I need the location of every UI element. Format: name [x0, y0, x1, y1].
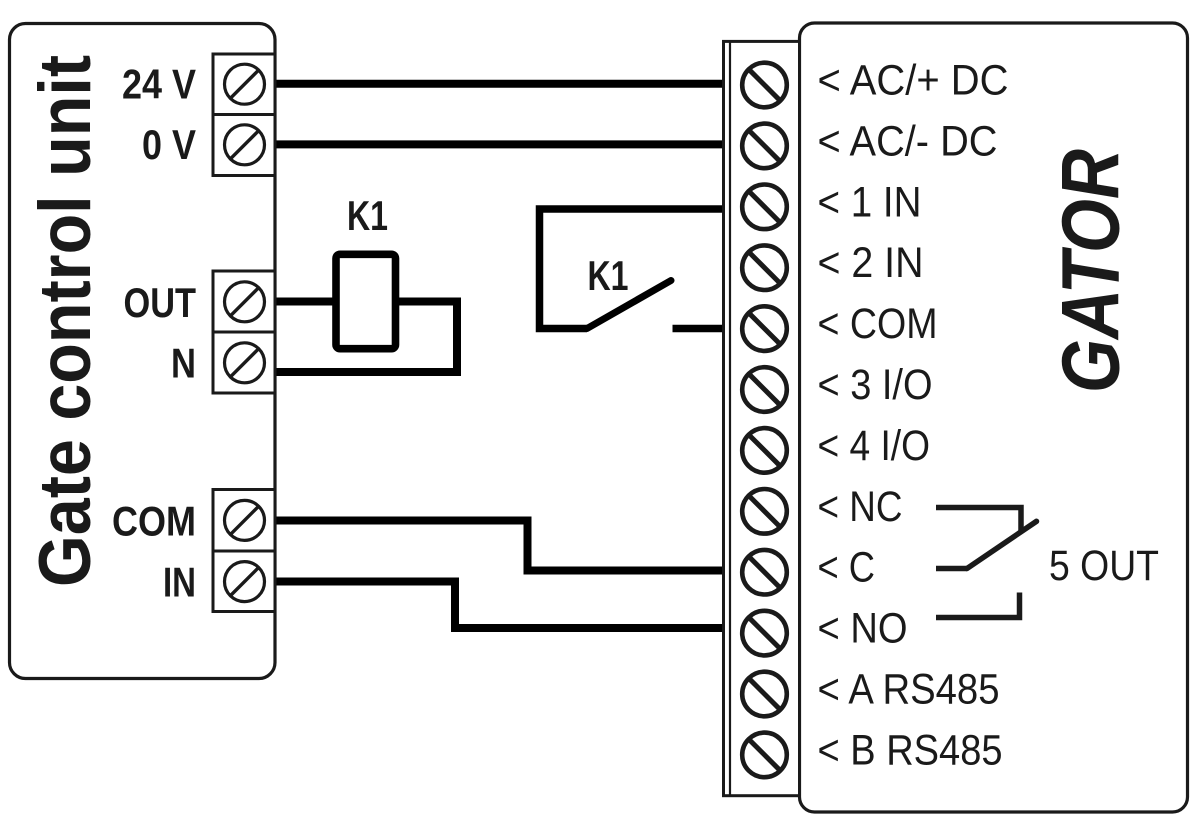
svg-text:< 3 I/O: < 3 I/O	[818, 361, 933, 409]
screw 2 IN	[742, 245, 787, 290]
wire 24V to AC/+DC	[273, 80, 725, 88]
wire IN to NO	[273, 582, 725, 629]
screw 1 IN	[742, 185, 787, 230]
svg-text:0 V: 0 V	[142, 121, 196, 168]
svg-text:< A RS485: < A RS485	[818, 666, 1000, 714]
svg-text:< NC: < NC	[818, 483, 903, 531]
terminal 0V	[213, 115, 275, 176]
strip screws	[742, 63, 787, 778]
screw NC	[742, 489, 787, 534]
wire contact K1 to COM	[673, 325, 725, 333]
svg-text:5 OUT: 5 OUT	[1049, 542, 1159, 590]
screw C	[742, 550, 787, 595]
svg-text:< AC/- DC: < AC/- DC	[818, 117, 998, 165]
wire COM to C	[273, 521, 725, 571]
5 OUT contact blade	[967, 521, 1037, 568]
wire 0V to AC/-DC	[273, 140, 725, 148]
screw 3 I/O	[742, 367, 787, 412]
svg-text:< NO: < NO	[818, 605, 908, 653]
screw A RS485	[742, 672, 787, 717]
relay coil K1	[336, 254, 396, 348]
screw NO	[742, 611, 787, 656]
screw AC/+DC	[742, 63, 787, 108]
wire coil K1 to N	[273, 302, 457, 373]
5 OUT contact NO line	[936, 593, 1020, 618]
terminal 24V	[213, 54, 275, 115]
svg-text:K1: K1	[588, 252, 629, 299]
svg-text:< 2 IN: < 2 IN	[818, 239, 924, 287]
wire 1IN to contact K1	[540, 209, 725, 329]
svg-text:COM: COM	[112, 498, 196, 545]
screw COM	[742, 306, 787, 351]
svg-text:< B RS485: < B RS485	[818, 726, 1003, 774]
svg-text:N: N	[171, 340, 196, 387]
5 OUT contact C line	[936, 566, 967, 572]
svg-text:GATOR: GATOR	[1046, 149, 1137, 393]
screw 4 I/O	[742, 428, 787, 473]
svg-text:< 1 IN: < 1 IN	[818, 178, 922, 226]
svg-text:< AC/+ DC: < AC/+ DC	[818, 57, 1009, 105]
terminal IN	[213, 551, 275, 612]
screw B RS485	[742, 733, 787, 778]
terminal N	[213, 332, 275, 393]
terminal strip	[724, 41, 800, 795]
gate control unit box	[10, 24, 276, 679]
svg-text:OUT: OUT	[124, 279, 197, 326]
svg-text:K1: K1	[347, 192, 388, 239]
svg-text:24 V: 24 V	[122, 61, 196, 108]
svg-text:< C: < C	[818, 544, 876, 592]
wire OUT to coil K1	[273, 298, 334, 306]
contact K1 blade	[587, 281, 671, 329]
svg-text:< 4 I/O: < 4 I/O	[818, 422, 931, 470]
5 OUT contact NC line	[936, 508, 1021, 532]
svg-text:Gate control unit: Gate control unit	[23, 55, 106, 587]
GATOR box	[800, 23, 1188, 812]
svg-text:< COM: < COM	[818, 300, 938, 348]
terminal OUT	[213, 271, 275, 332]
strip inner edge line	[729, 41, 731, 795]
svg-text:IN: IN	[163, 559, 196, 606]
terminal COM	[213, 490, 275, 552]
screw AC/-DC	[742, 124, 787, 169]
